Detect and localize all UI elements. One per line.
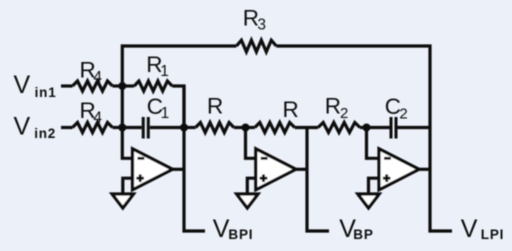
wire R4 to node B xyxy=(113,126,123,129)
svg-text:V: V xyxy=(461,215,478,243)
svg-text:in2: in2 xyxy=(34,126,56,141)
svg-text:BP: BP xyxy=(353,227,373,242)
node op1 output junction dot xyxy=(180,124,188,132)
wire R4 to node A xyxy=(113,84,123,87)
wire junction to op3 inverting input xyxy=(367,128,380,159)
svg-text:BPI: BPI xyxy=(228,227,253,242)
wire op2 output bus (VBP) xyxy=(295,168,307,171)
svg-text:1: 1 xyxy=(161,105,170,122)
wire op3 output to right bus (VLPI) xyxy=(418,168,430,171)
resistor R (first) xyxy=(184,126,196,129)
svg-text:V: V xyxy=(14,112,31,140)
svg-text:3: 3 xyxy=(257,17,266,34)
resistor R1 xyxy=(122,84,134,87)
resistor R3 xyxy=(236,40,276,52)
resistor R4 (bottom) xyxy=(73,123,113,133)
wire op2 noninverting input to ground xyxy=(247,178,256,194)
svg-text:in1: in1 xyxy=(35,85,57,100)
node R-R junction dot xyxy=(242,124,250,132)
wire R1 right corner down to op1 output bus xyxy=(172,86,184,128)
resistor R (second) xyxy=(246,126,255,129)
svg-text:4: 4 xyxy=(93,69,102,86)
svg-text:2: 2 xyxy=(399,106,407,123)
op-amp U1 xyxy=(133,149,173,190)
resistor R2 xyxy=(318,123,360,133)
svg-text:2: 2 xyxy=(340,105,348,122)
svg-text:V: V xyxy=(14,71,31,99)
wire op1 noninverting input to ground xyxy=(123,178,133,194)
svg-text:V: V xyxy=(213,215,230,243)
node R2-C2 junction dot xyxy=(363,124,371,132)
ground op1 xyxy=(112,194,133,208)
svg-text:R: R xyxy=(207,94,223,119)
ground op2 xyxy=(237,194,258,208)
wire: top feedback run from input node up and across to right bus xyxy=(122,46,236,86)
node B junction dot xyxy=(118,124,126,132)
wire op1 output bus (VBPI) xyxy=(173,168,185,171)
op-amp U3 xyxy=(379,149,419,190)
capacitor C2 xyxy=(367,126,390,129)
wire junction to op2 inverting input xyxy=(246,128,256,159)
svg-text:R: R xyxy=(325,94,341,119)
svg-text:R: R xyxy=(283,97,299,122)
capacitor C1 xyxy=(122,126,141,129)
svg-text:LPI: LPI xyxy=(481,227,504,242)
ground op3 xyxy=(358,194,379,208)
op-amp U2 xyxy=(256,149,296,190)
svg-text:4: 4 xyxy=(93,110,102,127)
svg-text:1: 1 xyxy=(160,63,169,80)
wire Vin2 stub xyxy=(61,126,73,129)
wire Vin1 stub xyxy=(61,84,73,87)
node A junction dot xyxy=(118,82,126,90)
wire op3 noninverting input to ground xyxy=(369,178,380,194)
resistor R4 (top) xyxy=(73,81,113,91)
wire input bus node A to node B to op1 inverting input xyxy=(122,86,132,158)
